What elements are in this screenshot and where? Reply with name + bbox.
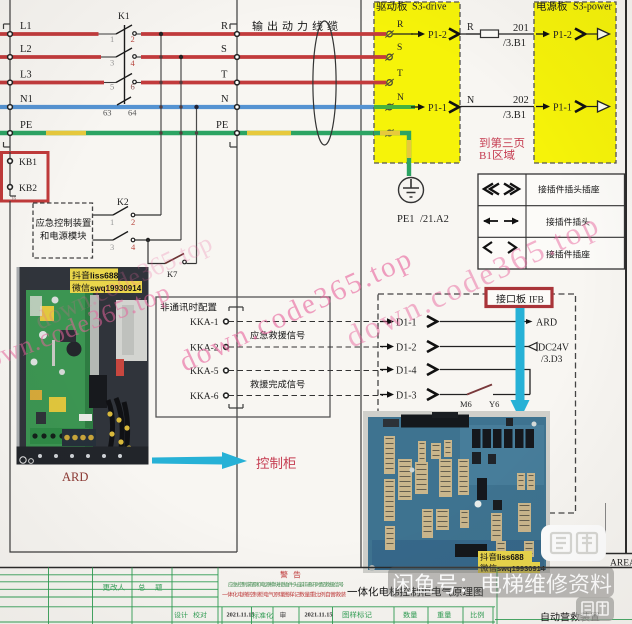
svg-text:P1-2: P1-2 — [428, 30, 447, 41]
plug P1-2 power + socket — [536, 33, 544, 35]
svg-text:N: N — [221, 94, 229, 105]
svg-text:R: R — [397, 20, 404, 30]
svg-text:3: 3 — [110, 58, 114, 68]
svg-text:N: N — [397, 93, 404, 103]
PE wire down to ground — [374, 133, 409, 176]
wire tap V1 from R to K2 contact 1 — [160, 34, 162, 215]
wire D1-2 to DC24V — [440, 346, 529, 348]
legend row1 plug+socket symbol — [484, 184, 499, 195]
connector: output terminal strip — [230, 0, 237, 552]
power board yellow block — [534, 2, 616, 163]
svg-text:S: S — [221, 44, 227, 55]
svg-text:T: T — [221, 70, 228, 81]
svg-text:S: S — [397, 43, 402, 53]
svg-text:202: 202 — [513, 95, 529, 106]
wire tap V3 from N to K7 — [196, 107, 198, 264]
plug D1-4 — [380, 369, 388, 371]
terminal KB2 — [8, 185, 13, 190]
svg-text:16: 16 — [11, 197, 17, 202]
switch K1 blade contacts — [116, 25, 132, 34]
svg-text:DC24V: DC24V — [538, 343, 570, 354]
label emergency rescue signal — [250, 331, 258, 340]
plug D1-2 — [380, 346, 388, 348]
svg-text:KB2: KB2 — [19, 184, 37, 194]
wire: page right border — [625, 0, 627, 554]
switch K1 linkage — [124, 25, 126, 104]
legend row3 socket symbol — [484, 242, 492, 253]
svg-text:D1-4: D1-4 — [396, 366, 417, 377]
ground symbol PE1 — [399, 178, 424, 203]
title block green grid — [0, 568, 632, 624]
svg-text:5: 5 — [110, 82, 114, 92]
legend row2 plug symbol — [484, 220, 498, 222]
green N stub + plug P1-1 drive — [374, 105, 415, 109]
svg-text:S3-drive: S3-drive — [412, 2, 447, 13]
wire N1/N blue bus — [0, 105, 374, 109]
svg-text:K1: K1 — [118, 12, 130, 22]
switch M6/Y6 — [440, 394, 467, 396]
label rescue complete signal — [250, 380, 259, 388]
terminal KB1 — [8, 159, 13, 164]
svg-text:1: 1 — [110, 34, 114, 44]
svg-text:P1-1: P1-1 — [428, 103, 447, 114]
plug P1-1 power + socket — [536, 106, 544, 108]
wire D1-4 joining down to D1-3 — [440, 370, 530, 395]
legend table — [478, 174, 625, 269]
wire L1/R red bus — [0, 32, 99, 36]
watermark xianyu account white text — [394, 574, 412, 594]
svg-text:3: 3 — [110, 242, 114, 252]
connector KB1/KB2 red box — [2, 153, 49, 202]
junction artifacts at crossings — [159, 55, 162, 58]
svg-text:M6: M6 — [460, 399, 472, 409]
note to page3 B1 — [480, 138, 490, 148]
warning box — [280, 571, 287, 578]
svg-text:/3.B1: /3.B1 — [503, 110, 526, 121]
plug D1-1 — [380, 321, 388, 323]
emergency control device dashed box — [33, 203, 93, 258]
svg-text:201: 201 — [513, 23, 529, 34]
cyan arrow to interface PCB — [516, 308, 525, 400]
watermark dark band — [388, 567, 614, 598]
svg-text:P1-1: P1-1 — [553, 103, 572, 114]
svg-text:6: 6 — [131, 82, 135, 92]
svg-text:ARD: ARD — [536, 318, 557, 329]
watermark pink diagonal texts — [0, 206, 606, 379]
svg-text:B1: B1 — [479, 150, 492, 162]
watermark chips on interface photo — [478, 551, 532, 562]
plug P1-2 drive — [393, 33, 413, 35]
svg-text:L1: L1 — [20, 21, 32, 32]
bottom row headers — [343, 612, 349, 619]
interface board dashed box — [378, 294, 576, 513]
svg-text:IFB: IFB — [529, 296, 544, 306]
interface board PCB photo — [363, 411, 550, 573]
svg-text:/21.A2: /21.A2 — [420, 214, 449, 225]
svg-text:2: 2 — [131, 217, 135, 227]
drawing title — [347, 590, 357, 593]
svg-text:2: 2 — [131, 34, 135, 44]
wire PE green bus with yellow stripes — [0, 131, 409, 135]
wire L3/T red bus — [0, 81, 104, 85]
svg-text:/3.B1: /3.B1 — [503, 38, 526, 49]
svg-text:R: R — [221, 21, 228, 32]
title block top border — [0, 567, 632, 569]
svg-text:liss688: liss688 — [497, 553, 524, 562]
svg-text:N: N — [467, 95, 474, 106]
svg-text:L3: L3 — [20, 70, 32, 81]
label control cabinet — [256, 457, 269, 469]
svg-text:T: T — [397, 69, 403, 79]
svg-text:PE1: PE1 — [397, 214, 415, 225]
svg-text:N1: N1 — [20, 94, 33, 105]
svg-text:KKA-6: KKA-6 — [190, 392, 219, 402]
interface board red label box — [486, 289, 552, 307]
label: output power cable — [252, 21, 262, 31]
svg-text:D1-2: D1-2 — [396, 343, 417, 354]
svg-text:Y6: Y6 — [489, 399, 499, 409]
plug D1-3 — [380, 394, 388, 396]
cyan arrow to control cabinet — [152, 452, 247, 469]
cable ellipse — [313, 21, 336, 145]
connector bracket KKA — [229, 307, 243, 408]
svg-text:L2: L2 — [20, 44, 32, 55]
wire L2/S red bus — [0, 55, 101, 59]
svg-text:P1-2: P1-2 — [553, 30, 572, 41]
title block header texts — [103, 584, 110, 591]
svg-text:S3-power: S3-power — [573, 2, 613, 13]
svg-text:D1-3: D1-3 — [396, 391, 417, 402]
svg-text:2021.11.15: 2021.11.15 — [305, 612, 333, 619]
non-communication config box — [156, 297, 330, 417]
svg-text:KKA-1: KKA-1 — [190, 318, 219, 328]
svg-text:PE: PE — [216, 120, 228, 131]
svg-text:1: 1 — [110, 217, 114, 227]
wire D1-1 to ARD — [440, 321, 527, 323]
watermark contact chip douyin — [70, 269, 118, 281]
small gray xianyu logo — [576, 597, 614, 621]
svg-text:64: 64 — [128, 108, 137, 118]
svg-text:63: 63 — [103, 108, 112, 118]
svg-text:ARD: ARD — [62, 470, 88, 484]
wire tap V2 from S to K2 contact 3 — [180, 57, 182, 240]
drive board yellow block — [374, 2, 460, 163]
svg-text:PE: PE — [20, 120, 32, 131]
drive board red stubs over yellow — [374, 32, 386, 36]
svg-text:2021.11.15: 2021.11.15 — [227, 612, 255, 619]
svg-text:/3.D3: /3.D3 — [541, 355, 563, 365]
control cabinet outline — [10, 201, 237, 552]
xianyu watermark logo — [541, 525, 606, 561]
svg-text:R: R — [467, 22, 474, 33]
drive board phi terminals — [387, 31, 393, 37]
switch K7 — [148, 240, 165, 264]
wire: section divider vertical — [360, 0, 362, 567]
connector: left terminal strip — [4, 0, 11, 152]
ARD power module photo — [17, 267, 149, 465]
svg-text:KB1: KB1 — [19, 158, 37, 168]
